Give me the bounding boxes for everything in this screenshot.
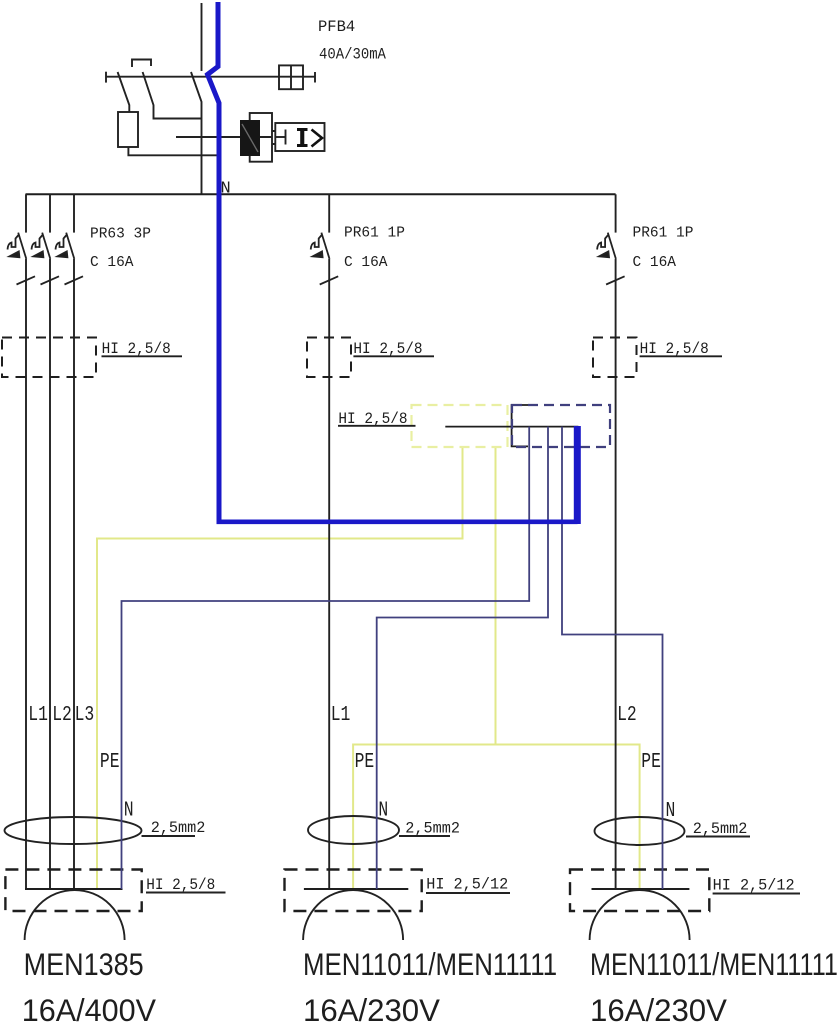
svg-text:MEN11011/MEN11111: MEN11011/MEN11111	[590, 947, 838, 982]
svg-text:N: N	[378, 798, 388, 823]
svg-text:16A/230V: 16A/230V	[590, 993, 727, 1024]
svg-text:HI 2,5/8: HI 2,5/8	[102, 339, 171, 358]
svg-text:PE: PE	[641, 749, 661, 774]
svg-text:HI 2,5/8: HI 2,5/8	[146, 875, 215, 894]
svg-text:PFB4: PFB4	[318, 18, 355, 36]
svg-text:16A/230V: 16A/230V	[303, 993, 440, 1024]
svg-text:C 16A: C 16A	[633, 255, 677, 271]
svg-text:PR63 3P: PR63 3P	[90, 227, 151, 243]
svg-text:PR61 1P: PR61 1P	[633, 226, 694, 242]
svg-text:HI 2,5/8: HI 2,5/8	[338, 409, 407, 428]
svg-text:L3: L3	[75, 702, 95, 727]
svg-text:MEN11011/MEN11111: MEN11011/MEN11111	[303, 948, 557, 983]
svg-text:40A/30mA: 40A/30mA	[319, 47, 386, 64]
svg-text:HI 2,5/8: HI 2,5/8	[640, 339, 709, 358]
svg-text:L2: L2	[52, 702, 72, 727]
svg-text:C 16A: C 16A	[90, 255, 134, 271]
svg-text:PE: PE	[355, 749, 375, 774]
svg-text:HI 2,5/12: HI 2,5/12	[426, 875, 508, 893]
svg-text:2,5mm2: 2,5mm2	[151, 819, 206, 837]
svg-text:C 16A: C 16A	[344, 255, 388, 271]
svg-text:L1: L1	[331, 702, 351, 727]
svg-text:2,5mm2: 2,5mm2	[693, 820, 748, 838]
svg-text:HI 2,5/8: HI 2,5/8	[353, 339, 422, 358]
svg-text:N: N	[221, 180, 231, 199]
svg-text:PR61 1P: PR61 1P	[344, 226, 405, 242]
svg-text:HI 2,5/12: HI 2,5/12	[713, 876, 795, 894]
svg-text:N: N	[124, 798, 134, 823]
svg-text:2,5mm2: 2,5mm2	[405, 819, 460, 837]
svg-text:MEN1385: MEN1385	[24, 947, 144, 982]
svg-text:N: N	[666, 798, 676, 823]
svg-text:L1: L1	[28, 702, 48, 727]
svg-text:L2: L2	[617, 702, 637, 727]
svg-text:PE: PE	[100, 749, 120, 774]
svg-text:16A/400V: 16A/400V	[22, 993, 156, 1024]
